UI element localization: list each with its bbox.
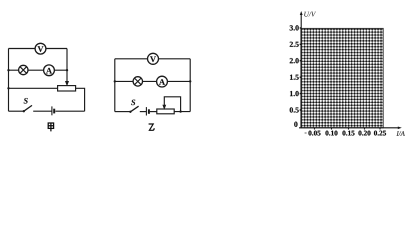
y tick label 3.0: [290, 25, 299, 30]
wire: bottom wire right segment (甲): [55, 110, 84, 112]
ammeter A2 (乙): [157, 76, 168, 87]
node: ammeter / voltmeter branch junction (甲): [66, 69, 68, 71]
y tick label 1.5: [290, 75, 299, 80]
voltmeter U1 (甲): [35, 43, 46, 54]
node: right vertical / lamp row junction (乙): [189, 80, 191, 82]
wire: bottom wire left segment (乙): [115, 111, 131, 113]
wire: rheostat right end to right vertical (乙): [174, 111, 190, 113]
wire: bottom wire left segment (甲): [9, 110, 24, 112]
rheostat R2 (乙): [157, 109, 174, 114]
ammeter A1 (甲): [44, 65, 55, 76]
lamp L1 (甲): [19, 65, 28, 74]
lamp L2 (乙): [133, 77, 142, 86]
x tick label 0.15: [342, 131, 354, 136]
y-axis arrowhead: [300, 11, 303, 15]
slider arrow of rheostat R1 (甲): [66, 81, 69, 85]
wire: vertical branch from voltmeter corner down to rheostat slider (甲): [66, 49, 68, 83]
label 乙 (drawn glyph): [149, 124, 155, 130]
label 甲 (drawn glyph): [48, 123, 53, 132]
x-axis tick marks: [315, 128, 381, 130]
x tick label 0.25: [374, 131, 386, 136]
x-axis arrowhead: [398, 127, 402, 130]
switch S (甲): [23, 98, 32, 112]
wire: top wire of circuit 甲 (voltmeter branch): [9, 48, 68, 50]
node: left wire / lamp row junction (甲): [7, 69, 9, 71]
slider arrow of rheostat R2 (乙): [163, 105, 166, 109]
grid mesh of graph paper: [301, 28, 383, 127]
x tick label 0.05: [308, 131, 320, 136]
x tick label 0.10: [325, 131, 337, 136]
x tick label 0.20: [358, 131, 370, 136]
y tick label 0: [294, 122, 297, 127]
y-axis tick marks: [300, 28, 302, 110]
axis label I/A: [396, 131, 404, 136]
wire: left vertical of circuit 乙: [114, 59, 116, 112]
battery B2 (乙): [146, 107, 149, 115]
y tick label 1.0: [290, 91, 299, 96]
wire: rheostat row wire of circuit 甲: [9, 87, 58, 89]
wire: right vertical of circuit 乙: [189, 59, 191, 112]
x-axis (I axis): [299, 127, 400, 129]
node: left vertical / lamp row junction (乙): [114, 80, 116, 82]
node: slider loop / bottom wire junction (乙): [179, 110, 181, 112]
axis label U/V: [304, 12, 316, 17]
wire: bottom wire between switch and battery (乙): [140, 111, 147, 113]
battery B1 (甲): [52, 106, 54, 115]
grid border: [301, 28, 383, 127]
wire: middle wire of circuit 甲 (lamp + ammeter row): [9, 69, 68, 71]
y tick label 0.5: [290, 107, 299, 112]
y-axis (U axis): [300, 14, 302, 128]
wire: left vertical of circuit 甲: [8, 49, 10, 112]
wire: battery to rheostat (乙): [150, 111, 157, 113]
voltmeter U2 (乙): [148, 53, 159, 64]
wire: lamp + ammeter row of circuit 乙: [115, 80, 190, 82]
stray dash artifact before 0.05: [305, 132, 307, 134]
wire: top wire of circuit 乙 (voltmeter branch): [115, 58, 190, 60]
switch S (乙): [129, 100, 138, 113]
y tick label 2.0: [290, 58, 299, 63]
wire: bottom wire between switch and battery (甲): [33, 110, 52, 112]
node: left wire / rheostat row junction (甲): [7, 87, 9, 89]
y tick label 2.5: [290, 42, 299, 47]
wire: slider loop over rheostat to bottom wire (乙): [164, 97, 180, 112]
rheostat R1 (甲): [58, 86, 76, 91]
wire: rheostat right end to right vertical (甲): [76, 88, 85, 111]
